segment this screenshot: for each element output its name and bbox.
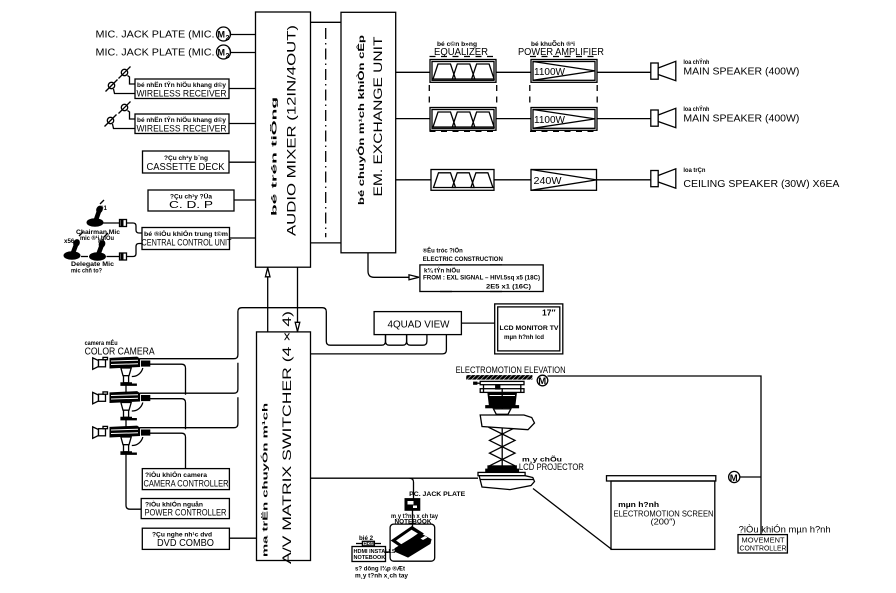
svg-text:loa trÇn: loa trÇn (683, 167, 705, 174)
wire antennas RX1 (128, 76, 136, 85)
dash-dot channel line (325, 28, 327, 237)
svg-text:MAIN SPEAKER (400W): MAIN SPEAKER (400W) (683, 67, 799, 78)
electromotion screen body (611, 481, 715, 549)
svg-text:A/V MATRIX SWITCHER (4 × 4): A/V MATRIX SWITCHER (4 × 4) (280, 311, 294, 564)
movement controller (738, 535, 787, 553)
svg-text:PC. JACK PLATE: PC. JACK PLATE (409, 491, 466, 498)
wire EM to EQ1 (396, 71, 430, 73)
svg-text:#1: #1 (100, 205, 107, 212)
wire D2 to CCU (127, 244, 143, 257)
wire camera power chain (125, 385, 127, 392)
wire cam1 control (150, 364, 186, 395)
notebook box with laptop (390, 524, 435, 561)
wire cam3 control (150, 433, 186, 468)
speaker SP3 label (683, 167, 839, 190)
dashed group rect AMP ch1-2 (530, 57, 597, 132)
audio mixer U1 (256, 12, 311, 267)
svg-text:s? dông l¾p ®Æt: s? dông l¾p ®Æt (355, 566, 405, 573)
svg-text:HDMI: HDMI (364, 541, 376, 546)
svg-text:ma trËn chuyÓn m¹ch: ma trËn chuyÓn m¹ch (261, 402, 270, 557)
electric construction note (420, 247, 543, 292)
elevation motor block (486, 393, 519, 408)
svg-text:mµn h?nh: mµn h?nh (618, 502, 659, 509)
wire EQ1 to AMP1 (496, 71, 531, 73)
wire mixer to matrix (down arrow) (295, 267, 300, 332)
svg-text:CAMERA CONTROLLER: CAMERA CONTROLLER (144, 479, 229, 489)
wireless receiver RX1 (135, 79, 229, 99)
pc jack plate icon (405, 499, 420, 511)
svg-text:loa chÝnh: loa chÝnh (683, 106, 709, 113)
LCD projector body (479, 476, 534, 490)
electromotion screen bar (607, 476, 716, 481)
power controller (141, 499, 229, 519)
wire antennas RX2 (128, 111, 136, 120)
wire matrix to projector (311, 477, 479, 479)
elevation keystone tray (480, 409, 534, 430)
elevation bracket frame (474, 381, 524, 392)
wire mic2 to mixer (231, 52, 256, 54)
speaker SP3 (651, 169, 676, 188)
svg-text:POWER CONTROLLER: POWER CONTROLLER (145, 508, 227, 518)
svg-text:NOTEBOOK: NOTEBOOK (354, 555, 386, 561)
svg-text:CENTRAL CONTROL UNIT: CENTRAL CONTROL UNIT (142, 238, 232, 248)
power amplifier AMP3 240W (531, 170, 597, 191)
arrow into construction box (409, 275, 419, 280)
wire branch to pc jack plate (410, 478, 414, 498)
svg-text:#1: #1 (98, 238, 105, 245)
wire dvd to matrix (229, 537, 256, 539)
wire D1 to CCU (127, 223, 143, 233)
cassette deck (143, 151, 230, 173)
wire mic1 to mixer (231, 34, 256, 36)
svg-text:MIC. JACK PLATE (MIC.: MIC. JACK PLATE (MIC. (96, 30, 215, 41)
svg-text:M: M (538, 376, 546, 387)
wire AMP3 to speaker3 (597, 179, 651, 181)
svg-text:C. D. P: C. D. P (169, 200, 214, 211)
wire elevation to trunk (548, 376, 762, 535)
antenna A2 of RX1 (106, 80, 118, 92)
speaker SP1 (651, 61, 676, 80)
motor M1 (elevation) (537, 375, 548, 387)
svg-text:FROM : EXL SIGNAL – HIVI.5sq x: FROM : EXL SIGNAL – HIVI.5sq x5 (18C) (423, 275, 540, 282)
delegate mic right (81, 233, 120, 260)
svg-text:?Çu ch¹y b¨ng: ?Çu ch¹y b¨ng (164, 155, 208, 162)
svg-text:1100W: 1100W (534, 115, 566, 126)
power amplifier AMP2 1100W (531, 108, 597, 131)
connector D2 (120, 253, 127, 260)
wire cam1 video (140, 308, 386, 359)
wire CDP to mixer (234, 199, 256, 201)
equalizer EQ1 (430, 60, 496, 83)
svg-text:2E5 x1 (16C): 2E5 x1 (16C) (486, 284, 531, 291)
svg-text:bé chuyÓn m¹ch khiÒn cÊp: bé chuyÓn m¹ch khiÒn cÊp (357, 35, 366, 205)
svg-text:240W: 240W (534, 176, 563, 187)
antenna A2 of RX2 (105, 115, 117, 127)
wire EM to electric construction (368, 253, 409, 277)
A/V matrix switcher U3 (257, 311, 311, 564)
wire cam2 video (140, 363, 238, 394)
power amplifier AMP1 1100W (531, 60, 597, 83)
ceiling hatch bar (466, 375, 532, 380)
dashed group rect EQ ch1-2 (429, 57, 496, 132)
4quad view (374, 312, 461, 335)
wire EM to EQ3 (396, 179, 431, 181)
dvd combo (142, 528, 229, 549)
antenna A1 of RX2 (119, 102, 131, 114)
LCD projector label (519, 455, 584, 473)
svg-text:COLOR CAMERA: COLOR CAMERA (85, 347, 155, 358)
chairman mic (87, 200, 120, 226)
svg-text:AUDIO MIXER (12IN/4OUT): AUDIO MIXER (12IN/4OUT) (285, 25, 299, 236)
svg-text:4QUAD VIEW: 4QUAD VIEW (388, 320, 451, 331)
svg-text:loa chÝnh: loa chÝnh (683, 59, 709, 66)
svg-text:M: M (218, 48, 226, 58)
svg-text:?iÒu khiÓn mµn h?nh: ?iÒu khiÓn mµn h?nh (739, 525, 831, 535)
wire EQ2 to AMP2 (496, 118, 531, 120)
wire matrix to quad (wire B) (311, 335, 447, 354)
color camera label (85, 339, 155, 358)
wire mixer-EM channel bottom (311, 242, 342, 244)
wire mixer-EM channel top (311, 21, 342, 23)
svg-text:CASSETTE DECK: CASSETTE DECK (147, 162, 225, 173)
speaker SP1 label (683, 59, 799, 78)
mic jack plate MIC2 label (96, 45, 232, 60)
color camera CAM1 (93, 357, 150, 385)
equalizer EQ2 (430, 108, 496, 131)
wire mixer to matrix (up arrow) (265, 267, 270, 332)
hdmi installs box (352, 535, 396, 562)
motor M2 (screen) (729, 471, 761, 483)
speaker SP2 label (683, 106, 799, 125)
svg-text:m¸y t?nh x¸ch tay: m¸y t?nh x¸ch tay (355, 573, 409, 580)
delegate mic left (64, 232, 83, 259)
notebook label (391, 513, 439, 526)
svg-text:17″: 17″ (542, 308, 556, 318)
connector D1 (120, 220, 127, 227)
quad riser loops (386, 335, 407, 346)
svg-text:mic chñ to?: mic chñ to? (71, 268, 102, 275)
svg-text:): ) (228, 48, 231, 59)
wire AMP1 to speaker1 (597, 71, 651, 73)
svg-text:LCD MONITOR TV: LCD MONITOR TV (500, 325, 559, 332)
LCD monitor TV (495, 304, 563, 354)
svg-text:MAIN SPEAKER (400W): MAIN SPEAKER (400W) (683, 114, 799, 125)
speaker SP2 (651, 108, 676, 127)
wire quad to monitor (461, 322, 494, 324)
wire cam3 video (140, 397, 238, 428)
svg-text:M: M (218, 30, 226, 40)
wire cassette to mixer (229, 161, 256, 163)
svg-text:WIRELESS RECEIVER: WIRELESS RECEIVER (137, 124, 227, 134)
wire cam2 control (150, 399, 186, 430)
svg-text:CEILING SPEAKER (30W) X6EA: CEILING SPEAKER (30W) X6EA (683, 179, 839, 190)
wire AMP2 to speaker2 (597, 118, 651, 120)
svg-text:M: M (730, 473, 738, 484)
camera controller (142, 469, 229, 490)
antenna A1 of RX1 (119, 67, 131, 79)
color camera CAM3 (93, 426, 150, 454)
svg-text:CONTROLLER: CONTROLLER (740, 544, 788, 553)
equalizer header label (434, 41, 488, 58)
projection beam (533, 489, 612, 550)
power amplifier header label (518, 41, 604, 58)
wireless receiver RX2 (135, 114, 229, 134)
svg-text:): ) (228, 30, 231, 41)
wire EM to EQ2 (396, 118, 430, 120)
central control unit (142, 228, 232, 250)
wire CCU to mixer (230, 237, 256, 239)
wire EQ3 to AMP3 (494, 179, 531, 181)
mic jack plate MIC1 label (96, 27, 232, 42)
svg-text:MIC. JACK PLATE (MIC.: MIC. JACK PLATE (MIC. (96, 48, 215, 59)
svg-text:DVD COMBO: DVD COMBO (157, 538, 214, 549)
svg-text:ELECTRIC CONSTRUCTION: ELECTRIC CONSTRUCTION (423, 256, 503, 263)
svg-text:EM. EXCHANGE UNIT: EM. EXCHANGE UNIT (371, 36, 385, 197)
wire RX2 to mixer (229, 123, 256, 125)
svg-text:mµn h?nh lcd: mµn h?nh lcd (504, 334, 544, 341)
svg-text:WIRELESS RECEIVER: WIRELESS RECEIVER (137, 89, 227, 99)
CD player C.D.P (148, 190, 234, 211)
svg-text:k¾ tÝn hiÖu: k¾ tÝn hiÖu (424, 268, 460, 275)
svg-text:®Êu tróc ?iÖn: ®Êu tróc ?iÖn (423, 247, 463, 255)
svg-text:bé trén tiÕng: bé trén tiÕng (270, 96, 279, 216)
projector mount plates (478, 466, 525, 476)
equalizer EQ3 (431, 170, 494, 191)
svg-text:(200″): (200″) (651, 518, 676, 527)
wire jack plate to notebook (412, 510, 414, 529)
EM exchange unit U2 (341, 12, 396, 253)
scissor lift (490, 389, 516, 466)
svg-text:x56: x56 (64, 238, 75, 245)
svg-text:1100W: 1100W (534, 67, 566, 78)
notebook caption below (355, 566, 409, 580)
wire RX1 to mixer (229, 88, 256, 90)
color camera CAM2 (93, 392, 150, 420)
svg-text:ELECTROMOTION ELEVATION: ELECTROMOTION ELEVATION (456, 365, 566, 375)
svg-text:LCD PROJECTOR: LCD PROJECTOR (519, 462, 584, 472)
